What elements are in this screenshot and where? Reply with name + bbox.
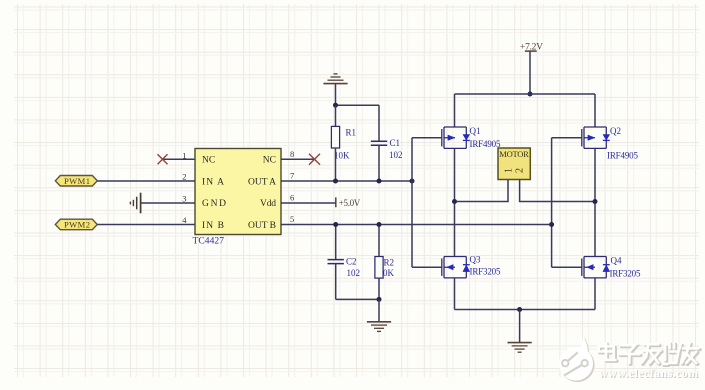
wire C1 bottom lead: [378, 145, 380, 181]
wire ground stem bottom: [519, 310, 521, 343]
transistor Q4 IRF3205: [582, 257, 610, 278]
svg-text:www.elecfans.com: www.elecfans.com: [599, 366, 698, 380]
wire down to ground: [378, 299, 380, 321]
svg-text:3: 3: [182, 193, 186, 203]
svg-text:PWM1: PWM1: [64, 176, 90, 186]
ground (earth) below R2: [367, 322, 391, 332]
wire pin1 NC: [163, 158, 196, 160]
svg-text:Q4: Q4: [611, 256, 622, 266]
wire pin7 OUT A: [281, 180, 412, 182]
power port +7.2V: [520, 42, 543, 52]
no-ERC cross on pin 8: [309, 154, 320, 165]
junction gate net B / OUT B: [549, 222, 554, 227]
svg-text:R2: R2: [384, 258, 395, 268]
port PWM1: [55, 176, 97, 187]
svg-text:1: 1: [503, 168, 514, 173]
junction C2-R2 bottom: [377, 297, 382, 302]
svg-text:PWM2: PWM2: [64, 220, 90, 230]
svg-text:102: 102: [347, 268, 361, 278]
svg-text:GND: GND: [202, 199, 226, 209]
junction R1 / OUT A: [333, 179, 338, 184]
svg-text:NC: NC: [263, 156, 276, 166]
junction +7.2V / top rail: [528, 92, 533, 97]
wire motor pin 1: [455, 180, 509, 202]
svg-text:8: 8: [290, 149, 294, 159]
wire C2 to R2 bottom: [336, 298, 379, 300]
wire pin4 IN B: [97, 224, 195, 226]
capacitor C1: [371, 138, 403, 160]
transistor Q3 IRF3205: [442, 257, 470, 278]
svg-text:Q1: Q1: [470, 126, 481, 136]
wire pin3 GND: [141, 202, 195, 204]
svg-text:NC: NC: [202, 156, 215, 166]
svg-text:1: 1: [182, 150, 186, 160]
svg-text:2: 2: [182, 172, 186, 182]
signal ground on pin 3: [130, 193, 140, 214]
svg-text:TC4427: TC4427: [193, 237, 225, 247]
svg-text:R1: R1: [346, 128, 357, 138]
svg-text:5: 5: [290, 214, 294, 224]
svg-text:2: 2: [515, 168, 526, 173]
wire ground stem to node: [335, 84, 337, 106]
junction C2 / OUT B: [333, 222, 338, 227]
wire motor pin 2: [520, 180, 595, 202]
svg-text:OUT B: OUT B: [248, 221, 276, 231]
watermark logo circle: [559, 336, 595, 382]
svg-text:7: 7: [290, 171, 294, 181]
watermark text 电子发烧友: [599, 343, 700, 365]
ground (earth) below bridge: [508, 343, 532, 353]
junction gate net A / OUT A: [410, 179, 415, 184]
capacitor C2: [328, 257, 361, 279]
IC U1 TC4427 body: [195, 149, 281, 235]
wire C2 top lead: [335, 225, 337, 260]
junction motor pin1 / left rail: [452, 199, 457, 204]
svg-text:+5.0V: +5.0V: [339, 198, 361, 208]
svg-text:IRF3205: IRF3205: [610, 269, 642, 279]
svg-text:Q3: Q3: [470, 255, 481, 265]
wire top rail: [455, 93, 596, 95]
svg-text:OUT A: OUT A: [248, 177, 276, 187]
junction at R1 top: [333, 103, 338, 108]
wire +7.2V stem: [529, 51, 531, 94]
ground (earth, inverted) above R1: [323, 74, 347, 84]
svg-text:Vdd: Vdd: [260, 199, 276, 209]
wire R2 top lead: [378, 225, 380, 257]
junction C1 / OUT A: [377, 179, 382, 184]
svg-text:Q2: Q2: [610, 126, 621, 136]
wire R1 bottom lead: [335, 148, 337, 181]
wire C2 bottom lead: [335, 264, 337, 300]
svg-text:MOTOR: MOTOR: [499, 149, 529, 159]
no-ERC cross on pin 1: [158, 154, 168, 164]
wire C1 top lead: [378, 105, 380, 141]
wire pin2 IN A: [97, 180, 195, 182]
svg-text:10K: 10K: [334, 151, 350, 161]
svg-text:IRF4905: IRF4905: [470, 139, 502, 149]
svg-text:IRF4905: IRF4905: [607, 150, 639, 160]
port PWM2: [55, 219, 97, 230]
junction R2 / OUT B: [377, 222, 382, 227]
wire pin6 Vdd: [281, 202, 336, 204]
resistor R1: [331, 126, 356, 160]
wire node to C1 top: [336, 104, 380, 106]
watermark text www.elecfans.com: [599, 366, 699, 381]
svg-text:C2: C2: [346, 257, 357, 267]
wire gate net A vertical: [412, 138, 442, 268]
junction bottom rail / ground: [517, 307, 522, 312]
svg-text:IN A: IN A: [202, 177, 224, 187]
svg-text:IRF3205: IRF3205: [470, 267, 502, 277]
svg-text:IN B: IN B: [202, 221, 224, 231]
wire R1 top lead: [335, 105, 337, 126]
wire pin8 NC: [281, 158, 315, 160]
junction motor pin2 / right rail: [593, 199, 598, 204]
wire pin5 OUT B: [281, 224, 552, 226]
resistor R2: [375, 257, 395, 279]
wire left rail upper: [454, 94, 456, 310]
wire bottom rail: [455, 309, 596, 311]
wire right rail: [594, 94, 596, 310]
wire gate net B vertical: [552, 138, 582, 268]
svg-text:6: 6: [290, 192, 294, 202]
svg-text:102: 102: [389, 150, 403, 160]
transistor Q1 IRF4905: [442, 127, 470, 148]
svg-text:C1: C1: [390, 138, 401, 148]
wire R2 bottom lead: [378, 278, 380, 299]
transistor Q2 IRF4905: [582, 127, 610, 148]
power port +5.0V: [336, 197, 361, 208]
motor M1: [498, 148, 530, 180]
